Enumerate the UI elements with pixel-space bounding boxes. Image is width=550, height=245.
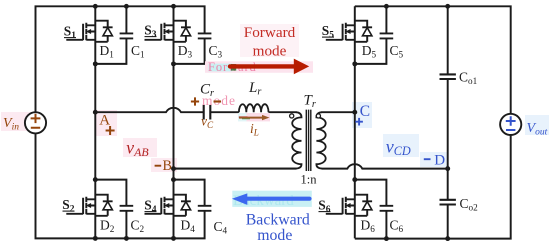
- transistor S3 (MOSFET): [145, 23, 174, 41]
- ghost band behind forward arrow: [205, 61, 313, 73]
- inductor Lr: [239, 104, 269, 112]
- capacitor C1: [120, 33, 134, 38]
- iL current arrow (brown): [239, 117, 263, 119]
- backward mode arrow (blue): [247, 197, 310, 201]
- junction dots lower cap row: [93, 177, 98, 182]
- wire: Cr right to Lr: [210, 111, 239, 113]
- capacitor C6: [380, 206, 394, 211]
- ghost band behind backward arrow: [232, 191, 311, 207]
- source Vout (output DC source): [500, 114, 521, 135]
- transistor S1 (MOSFET): [66, 23, 95, 41]
- iL ghost arrow fragments (red/green): [239, 116, 248, 118]
- svg-text:A: A: [99, 112, 110, 128]
- wire: bridge leg S3/S4 through node B vertical: [173, 6, 175, 238]
- junction dots top-right rail: [384, 4, 389, 9]
- transformer Tr primary winding: [174, 112, 302, 168]
- svg-text:1:n: 1:n: [301, 172, 318, 186]
- wire: Co1/Co2 output divider branch: [447, 6, 449, 238]
- wire: node B horizontal to transformer primary bottom: [174, 168, 297, 170]
- wire: node A horizontal with hop over S3/S4 leg: [95, 108, 203, 112]
- capacitor C4: [198, 206, 212, 211]
- transistor S4 (MOSFET): [145, 197, 174, 215]
- source Vin (input DC source): [25, 112, 46, 133]
- wire: C6 branch: [355, 180, 387, 239]
- junction dots bottom-left rail: [93, 236, 98, 241]
- wire: bottom-right rail + output right vertical bottom: [355, 135, 511, 238]
- transistor S2 (MOSFET): [66, 197, 95, 215]
- label node D: [424, 158, 431, 160]
- diode D6 (antiparallel): [355, 195, 372, 216]
- capacitor C2: [120, 206, 134, 211]
- node D junction: [445, 166, 450, 171]
- svg-text:mode: mode: [253, 42, 287, 59]
- wire: bridge leg S1/S2 through node A vertical: [94, 6, 96, 238]
- svg-text:D: D: [434, 153, 445, 169]
- label Cr minus: [214, 100, 222, 102]
- diode D5 (antiparallel): [355, 21, 372, 42]
- label background tints: [1, 112, 31, 131]
- node C junction: [352, 110, 357, 115]
- wire: C5 branch: [355, 6, 387, 64]
- diode D1 (antiparallel): [95, 21, 112, 42]
- capacitor Cr (series resonant): [204, 105, 211, 120]
- wire: C3 branch bottom lead: [174, 38, 205, 64]
- wire: input left vertical bottom + bottom-left rail + C4 bottom lead: [36, 133, 205, 238]
- transformer Tr primary polarity dot: [290, 114, 294, 118]
- label Cr plus: [191, 97, 199, 105]
- node A junction: [93, 110, 98, 115]
- ghost tints near iL arrow: [238, 113, 247, 121]
- node B junction: [171, 166, 176, 171]
- svg-text:mode: mode: [257, 227, 292, 244]
- label node A plus: [106, 126, 115, 135]
- label node C plus: [355, 118, 363, 126]
- diode D2 (antiparallel): [95, 195, 112, 216]
- wire: transformer secondary top to node C: [322, 111, 355, 113]
- diode D4 (antiparallel): [174, 195, 191, 216]
- capacitor Co1: [440, 74, 456, 79]
- svg-text:B: B: [163, 158, 172, 174]
- transformer Tr secondary polarity dot: [316, 114, 320, 118]
- transformer Tr core: [306, 110, 311, 171]
- wire: C2 branch: [95, 180, 126, 239]
- svg-text:Forward: Forward: [244, 24, 296, 41]
- transformer Tr secondary winding: [316, 112, 325, 168]
- junction dots bottom-right rail: [384, 236, 389, 241]
- wire: transformer secondary bottom with hop over S5/S6 leg, to node D: [322, 164, 448, 168]
- diode D3 (antiparallel): [174, 21, 191, 42]
- capacitor C3: [198, 33, 212, 38]
- wire: Lr to transformer primary: [269, 111, 297, 113]
- capacitor C5: [380, 33, 394, 38]
- svg-text:C: C: [360, 103, 370, 120]
- label node B: [155, 165, 162, 167]
- wire: C1 branch: [95, 6, 126, 64]
- transistor S6 (MOSFET): [326, 197, 355, 215]
- capacitor Co2: [440, 200, 456, 205]
- wire: C4 branch top lead: [174, 180, 205, 206]
- forward mode arrow (red): [230, 64, 294, 68]
- junction dots top-left rail: [93, 4, 98, 9]
- transistor S5 (MOSFET): [326, 23, 355, 41]
- wire: top-right rail + output right vertical: [355, 6, 511, 113]
- wire: input left vertical + top-left rail + C3 top lead: [36, 6, 205, 112]
- wire: bridge leg S5/S6 through node C vertical: [354, 6, 356, 238]
- junction dots upper cap row: [93, 61, 98, 66]
